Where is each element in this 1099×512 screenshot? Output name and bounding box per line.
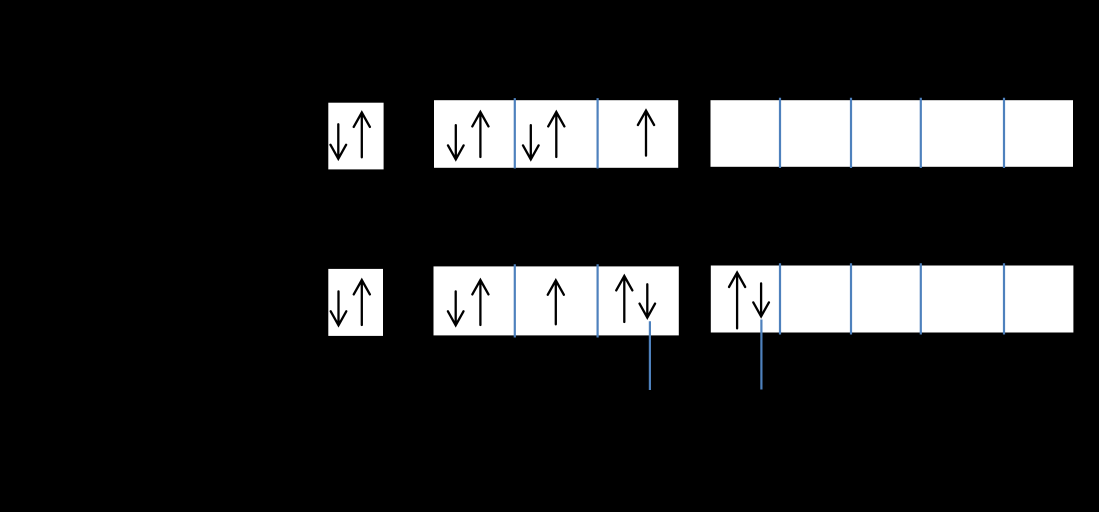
- 3d divider 2, row 2: [850, 263, 852, 334]
- 3p divider 2, row 1: [596, 98, 598, 168]
- 3s orbital box, row 2 (excited state): [328, 269, 383, 336]
- spin-up electron arrow, 3s row 1: [354, 113, 370, 158]
- 3p divider 1, row 1: [514, 98, 516, 168]
- 3d orbital group box, row 1: [711, 100, 1074, 167]
- 3d orbital group box, row 2: [711, 266, 1074, 333]
- spin-down electron arrow, 3p cell 2 row 1: [523, 125, 539, 159]
- 3p orbital group box, row 1: [434, 100, 678, 168]
- spin-up electron arrow, 3p cell 3 row 1: [638, 111, 654, 156]
- blue leader line under 3d cell 1 row 2: [760, 320, 762, 390]
- 3d divider 1, row 1: [779, 98, 781, 168]
- spin-up electron arrow, 3p cell 3 row 2: [616, 276, 632, 322]
- spin-up electron arrow, 3p cell 2 row 2: [548, 280, 564, 324]
- spin-up electron arrow, 3p cell 1 row 1: [472, 112, 488, 157]
- 3d divider 3, row 2: [920, 263, 922, 334]
- 3d divider 3, row 1: [920, 98, 922, 168]
- 3d divider 4, row 1: [1003, 98, 1005, 168]
- 3d divider 2, row 1: [850, 98, 852, 168]
- spin-up electron arrow, 3d cell 1 row 2: [729, 273, 745, 329]
- spin-down electron arrow, 3s row 2: [331, 291, 347, 325]
- 3s orbital box, row 1 (ground state): [328, 103, 383, 170]
- spin-up electron arrow, 3p cell 1 row 2: [472, 280, 488, 325]
- 3p orbital group box, row 2: [434, 266, 679, 335]
- 3d divider 1, row 2: [779, 263, 781, 334]
- spin-up electron arrow, 3s row 2: [354, 280, 370, 325]
- spin-down electron arrow, 3p cell 1 row 2: [448, 291, 464, 325]
- spin-down electron arrow, 3p cell 1 row 1: [448, 125, 464, 159]
- 3d divider 4, row 2: [1003, 263, 1005, 334]
- blue leader line under 3p cell 3 row 2: [649, 321, 651, 390]
- spin-down electron arrow, 3s row 1: [331, 124, 347, 159]
- spin-up electron arrow, 3p cell 2 row 1: [548, 112, 564, 157]
- spin-down electron arrow (paired electron), 3p cell 3 row 2: [640, 284, 656, 317]
- 3p divider 1, row 2: [514, 264, 516, 337]
- 3p divider 2, row 2: [596, 264, 598, 337]
- spin-down electron arrow (paired electron), 3d cell 1 row 2: [753, 283, 769, 316]
